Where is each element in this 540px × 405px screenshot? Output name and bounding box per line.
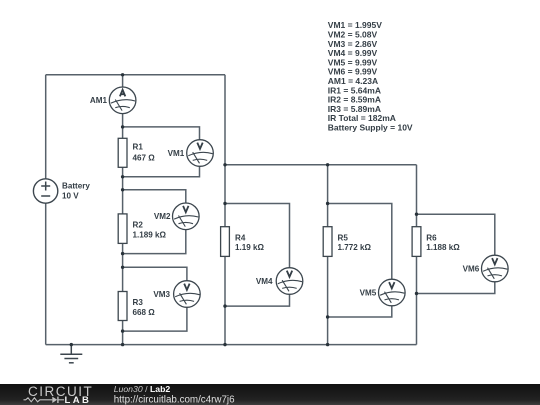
measurement results text block <box>328 20 413 132</box>
svg-text:1.19 kΩ: 1.19 kΩ <box>235 243 265 252</box>
svg-text:VM2: VM2 <box>154 212 171 221</box>
wire: VM2 loop <box>123 190 186 254</box>
voltmeter VM6 <box>482 255 509 282</box>
ground <box>60 345 82 363</box>
voltmeter VM3 <box>174 281 201 308</box>
voltmeter VM1 <box>187 140 214 167</box>
svg-text:VM4: VM4 <box>256 277 273 286</box>
wire: VM1 loop <box>123 127 200 177</box>
wire: top bus <box>46 74 225 76</box>
wire: mid bus <box>225 164 417 166</box>
battery label <box>62 182 90 201</box>
voltmeter VM4 <box>276 268 303 295</box>
R1 label <box>133 143 156 163</box>
wire: R6 branch vertical <box>416 165 418 345</box>
svg-text:Luon30 / Lab2: Luon30 / Lab2 <box>114 384 171 394</box>
svg-text:AM1: AM1 <box>90 96 108 105</box>
resistor R6 <box>412 227 421 257</box>
svg-text:1.189 kΩ: 1.189 kΩ <box>133 231 167 240</box>
svg-text:LAB: LAB <box>65 395 92 405</box>
footer bar <box>0 384 540 405</box>
R6 label <box>426 233 460 252</box>
R5 label <box>338 233 372 252</box>
wire: R4 branch vertical <box>224 75 226 345</box>
wire: R5 branch vertical <box>327 165 329 345</box>
wire: series chain vertical <box>122 75 124 345</box>
svg-text:R1: R1 <box>133 143 144 152</box>
ammeter AM1 <box>109 87 136 114</box>
svg-text:Battery Supply = 10V: Battery Supply = 10V <box>328 123 413 133</box>
svg-text:1.188 kΩ: 1.188 kΩ <box>426 243 460 252</box>
resistor R3 <box>118 292 127 321</box>
svg-text:R4: R4 <box>235 233 246 242</box>
svg-text:R3: R3 <box>133 298 144 307</box>
wire: bottom bus <box>46 344 417 346</box>
svg-text:R6: R6 <box>426 233 437 242</box>
wire: VM6 loop <box>417 214 495 293</box>
R4 label <box>235 233 265 252</box>
battery V1 <box>33 179 57 203</box>
svg-text:VM1: VM1 <box>168 149 185 158</box>
svg-text:VM6: VM6 <box>463 264 480 273</box>
svg-text:http://circuitlab.com/c4rw7j6: http://circuitlab.com/c4rw7j6 <box>114 394 235 405</box>
svg-text:Battery: Battery <box>62 182 90 191</box>
R2 label <box>133 221 167 240</box>
svg-text:467 Ω: 467 Ω <box>133 153 156 162</box>
svg-text:VM5: VM5 <box>360 288 377 297</box>
svg-text:VM3: VM3 <box>153 290 170 299</box>
voltmeter VM2 <box>173 203 200 230</box>
resistor R2 <box>118 214 127 244</box>
svg-text:10 V: 10 V <box>62 191 79 200</box>
wire: VM4 loop <box>225 204 290 307</box>
wire: VM3 loop <box>123 267 187 331</box>
footer logo zigzag + diode <box>24 398 65 402</box>
svg-text:668 Ω: 668 Ω <box>133 308 156 317</box>
resistor R1 <box>118 138 127 167</box>
svg-text:1.772 kΩ: 1.772 kΩ <box>338 243 372 252</box>
wire: VM5 loop <box>328 204 392 318</box>
voltmeter VM5 <box>379 279 406 306</box>
resistor R4 <box>221 227 230 257</box>
wire: battery left rail <box>45 75 47 345</box>
resistor R5 <box>323 227 332 257</box>
svg-text:R5: R5 <box>338 233 349 242</box>
R3 label <box>133 298 156 317</box>
svg-text:R2: R2 <box>133 221 144 230</box>
